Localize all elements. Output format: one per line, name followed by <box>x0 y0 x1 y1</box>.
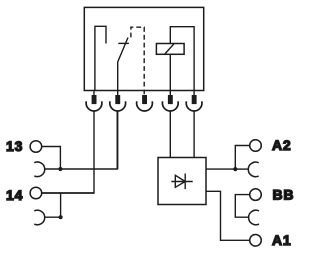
wire pin 4 down to input block <box>169 111 171 158</box>
wire pin 5 down to input block <box>193 111 195 158</box>
plug pin 4 <box>162 91 178 111</box>
wire pin 2 down to terminal 13 row <box>117 111 119 169</box>
junction dot 14 bridge <box>59 215 63 219</box>
diode D1 triangle <box>175 175 185 187</box>
contact tick <box>118 42 129 44</box>
plug pin 2 <box>110 91 126 111</box>
terminal A2 circle <box>250 140 262 152</box>
wire 14 branch down to bridge <box>60 193 62 217</box>
bridge socket below BB <box>249 210 259 225</box>
junction dot 13 row <box>58 167 62 171</box>
bridge socket below 14 <box>34 210 44 225</box>
diode D1 cathode bar <box>184 174 186 190</box>
svg-text:14: 14 <box>6 187 23 203</box>
terminal BB circle <box>250 189 262 201</box>
coil wire loop to pin 5 <box>170 27 194 91</box>
movable contact blade <box>118 38 128 91</box>
terminal 14 circle <box>30 187 42 199</box>
wire terminal 14 to pin 1 <box>42 192 94 194</box>
plug pin 5 <box>186 91 202 111</box>
plug pin 3 <box>137 96 153 111</box>
mechanical linkage (dashed) <box>131 27 144 96</box>
wire input block to A2 node <box>206 168 235 170</box>
bridge socket below 13 <box>34 162 44 177</box>
fixed contact terminal (pin 1 side) <box>95 26 106 90</box>
junction dot A2 node <box>233 167 237 171</box>
wire pin 1 down to terminal 14 row <box>42 111 94 193</box>
svg-text:BB: BB <box>273 187 295 203</box>
wire input block to terminal A1 <box>206 191 250 240</box>
wire A2 node up to terminal A2 <box>235 146 249 170</box>
coil diagonal <box>165 44 174 54</box>
wire terminal 13 to bridge row <box>42 147 61 170</box>
svg-text:13: 13 <box>6 138 23 154</box>
svg-text:A2: A2 <box>272 137 292 153</box>
bridge socket below A2 <box>248 162 258 177</box>
input block <box>158 158 206 205</box>
wire A2 node to bridge socket <box>235 168 249 170</box>
svg-text:A1: A1 <box>272 232 292 248</box>
plug pin 1 <box>86 91 102 111</box>
terminal 13 circle <box>30 141 42 153</box>
wire 13 bridge row to pin 2 <box>44 111 117 169</box>
relay module outline <box>84 7 203 90</box>
wire terminal BB to bridge socket <box>235 195 249 218</box>
terminal A1 circle <box>250 235 262 247</box>
coil wire to pin 4 <box>169 54 171 90</box>
diode D1 lead <box>171 181 192 183</box>
wire 14 bridge to branch <box>44 216 60 218</box>
relay coil K1 <box>156 44 184 55</box>
